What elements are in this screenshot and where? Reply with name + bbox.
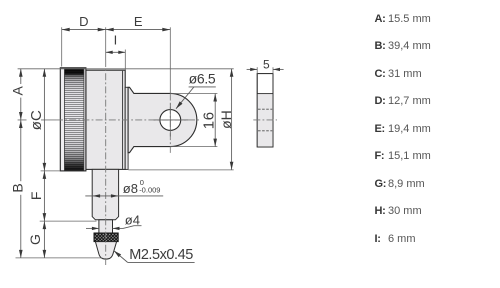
svg-text:ø6.5: ø6.5 — [189, 71, 216, 87]
svg-text:16: 16 — [201, 111, 218, 129]
svg-text:øH: øH — [218, 110, 234, 129]
svg-text:ø4: ø4 — [125, 212, 140, 227]
svg-text:øC: øC — [28, 110, 45, 130]
svg-text:E: E — [134, 14, 143, 29]
svg-text:I: I — [114, 33, 118, 48]
svg-text:F: F — [28, 192, 44, 201]
svg-text:G: G — [27, 234, 43, 245]
svg-text:-0.009: -0.009 — [139, 186, 160, 195]
svg-text:5: 5 — [263, 58, 270, 72]
svg-text:D: D — [79, 14, 88, 29]
svg-text:ø8: ø8 — [123, 181, 138, 196]
svg-text:B: B — [9, 183, 25, 192]
svg-text:M2.5x0.45: M2.5x0.45 — [129, 247, 193, 263]
svg-text:A: A — [9, 85, 25, 95]
